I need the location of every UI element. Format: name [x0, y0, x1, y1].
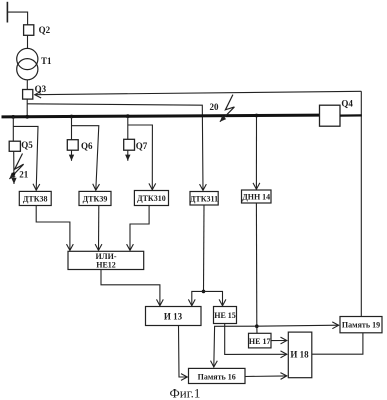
wire branch down to НЕ 17	[256, 326, 258, 333]
node feeder3 on bus	[126, 114, 130, 118]
block Память 16	[189, 368, 246, 383]
node ДТК311 branch	[202, 290, 206, 294]
wire ИЛИ-НЕ12 to И 13 (arrow)	[101, 270, 160, 306]
svg-text:ДТК311: ДТК311	[190, 194, 218, 203]
svg-text:ДТК38: ДТК38	[23, 194, 48, 203]
block И 13	[146, 307, 202, 326]
wire feeder3 from bus to Q7	[127, 117, 129, 140]
wire Q2 to T1	[27, 35, 29, 48]
svg-text:НЕ12: НЕ12	[96, 261, 116, 270]
svg-text:НЕ 17: НЕ 17	[249, 337, 271, 346]
block НЕ 17	[249, 333, 272, 348]
breaker Q4	[320, 98, 354, 126]
wire feeder2 load (arrow down)	[71, 150, 73, 161]
svg-text:21: 21	[19, 169, 29, 179]
wire right vertical down to Память 19	[360, 91, 362, 316]
svg-text:Q2: Q2	[39, 25, 51, 35]
svg-text:T1: T1	[41, 56, 52, 66]
fault bolt 20 on bus	[210, 95, 235, 122]
wire ДТК310 to ИЛИ-НЕ12 (arrow)	[130, 206, 149, 251]
wire branch to И 13 (arrow)	[192, 291, 204, 306]
wire Q3 to bus	[26, 99, 28, 117]
svg-text:20: 20	[210, 102, 220, 112]
node transformer on bus	[25, 115, 29, 119]
svg-text:И 13: И 13	[164, 312, 183, 322]
breaker Q3	[23, 84, 47, 99]
wire branch to НЕ 15 (arrow)	[204, 291, 223, 306]
svg-text:Память 16: Память 16	[198, 372, 236, 381]
block Память 19	[340, 317, 382, 333]
block ДТК310	[134, 191, 168, 206]
node feeder2 on bus	[70, 115, 74, 119]
breaker Q5	[9, 140, 33, 151]
block НЕ 15	[214, 307, 237, 324]
svg-text:Q3: Q3	[35, 84, 47, 94]
wire И 13 to Память 16 (arrow)	[179, 326, 188, 378]
wire ДНН 14 output down	[255, 203, 257, 326]
svg-text:Q7: Q7	[136, 141, 148, 151]
node feeder1 on bus	[11, 115, 15, 119]
trip wire from Память 19 to Q3 (arrow into Q3)	[35, 91, 362, 94]
svg-text:ДТК39: ДТК39	[83, 194, 108, 203]
node ДНН tap on bus	[255, 114, 259, 118]
block И 18	[288, 332, 312, 378]
wire feeder1 tap to ДТК38 (arrow)	[13, 126, 38, 190]
bus bar	[2, 115, 320, 117]
block ДНН 14	[242, 190, 272, 203]
fault bolt 21 on feeder1	[9, 154, 28, 180]
wire feeder1 load (arrow down)	[13, 151, 15, 184]
breaker Q2	[24, 25, 51, 36]
svg-text:Q6: Q6	[81, 141, 93, 151]
wire ДТК39 to ИЛИ-НЕ12 (arrow)	[98, 206, 100, 251]
wire НЕ 15 to И 18 (arrow)	[225, 324, 287, 355]
wire feeder3 tap to ДТК310 (arrow)	[128, 125, 153, 190]
wire Память 16 to И 18 (arrow)	[245, 375, 287, 378]
block ДТК39	[79, 191, 111, 205]
svg-text:И 18: И 18	[290, 350, 309, 360]
wire T1 to Q3	[26, 80, 28, 90]
svg-text:ДНН 14: ДНН 14	[242, 193, 270, 202]
svg-text:Q4: Q4	[341, 98, 353, 108]
wire И 18 to Память 19	[312, 333, 363, 354]
svg-text:Фиг.1: Фиг.1	[170, 386, 201, 400]
svg-text:Память 19: Память 19	[342, 321, 380, 330]
caption Фиг.1	[170, 386, 201, 400]
wire feeder1 from bus to Q5	[12, 117, 14, 141]
wire feeder2 from bus to Q6	[71, 117, 73, 140]
wire tap below Q3 to ДТК311 (arrow)	[27, 104, 203, 191]
svg-text:ДТК310: ДТК310	[137, 194, 166, 203]
block ДТК38	[19, 191, 51, 205]
svg-text:НЕ 15: НЕ 15	[214, 311, 236, 320]
wire branch left to Память 16 (arrow)	[214, 326, 257, 367]
breaker Q7	[124, 139, 148, 151]
block ИЛИ-НЕ12	[68, 251, 144, 269]
svg-text:Q5: Q5	[21, 140, 33, 150]
wire branch to Память 19 (arrow)	[257, 325, 339, 326]
breaker Q6	[67, 140, 93, 151]
transformer T1	[17, 48, 52, 79]
wire ДТК311 output	[203, 205, 206, 291]
node ДНН branch	[255, 324, 259, 328]
wire feeder2 tap to ДТК39 (arrow)	[72, 126, 99, 191]
supply source bar	[6, 2, 8, 23]
wire from source to Q2	[7, 12, 27, 25]
block ДТК311	[190, 192, 218, 206]
wire ДТК38 to ИЛИ-НЕ12 (arrow)	[36, 206, 70, 251]
wire feeder3 load (arrow down)	[127, 150, 129, 161]
wire bus stub right of Q4	[340, 114, 362, 116]
wire bus tap to ДНН 14 (arrow)	[255, 117, 257, 189]
wire НЕ 17 to И 18 (arrow)	[271, 340, 287, 342]
